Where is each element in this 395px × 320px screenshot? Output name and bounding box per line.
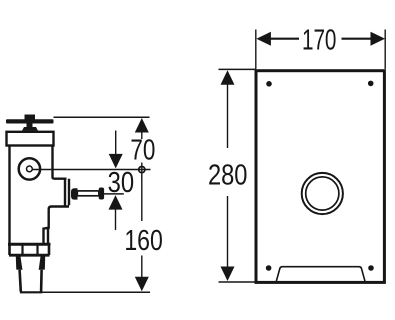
dim 70 upper arrow xyxy=(135,118,149,133)
push rod end cap xyxy=(99,188,104,200)
tailpipe left barb section xyxy=(16,256,23,269)
svg-text:70: 70 xyxy=(130,135,155,167)
rod centerline extension xyxy=(104,193,124,195)
flush valve handle stem xyxy=(27,124,33,128)
dim 280 upper arrow (pointing up) xyxy=(221,70,235,85)
dim 280 bottom extension line xyxy=(219,281,258,283)
svg-text:170: 170 xyxy=(302,24,337,56)
dim 170 left extension line xyxy=(255,30,257,70)
dim 160 line upper segment xyxy=(141,177,143,222)
cover plate outline xyxy=(256,71,384,283)
flush valve handle bar xyxy=(6,119,54,123)
dim 70 line to datum xyxy=(141,163,143,178)
flush valve handle stem flange xyxy=(22,127,38,131)
cover plate screw hole bottom-right xyxy=(368,265,374,271)
push rod shaft xyxy=(77,191,99,196)
extension line from handle top xyxy=(54,116,150,118)
centerline from inlet to datum xyxy=(33,169,151,171)
union nut facet lines xyxy=(23,245,38,254)
dim 170 right arrow xyxy=(371,32,386,46)
union nut top flange xyxy=(8,243,51,246)
push rod flange xyxy=(71,188,78,199)
flush valve supply inlet circle xyxy=(19,158,40,179)
push button inner ring xyxy=(306,177,339,210)
dim 170 right extension line xyxy=(384,30,386,70)
svg-text:160: 160 xyxy=(124,225,163,257)
dim 160 line lower segment with arrow xyxy=(141,256,143,280)
tailpipe left wall xyxy=(20,270,21,292)
tailpipe right barb section xyxy=(39,256,46,269)
svg-text:280: 280 xyxy=(208,160,248,192)
flush valve handle knob xyxy=(25,115,36,122)
cover plate screw hole top-left xyxy=(266,81,272,87)
union nut body xyxy=(10,243,50,255)
cover plate screw hole top-right xyxy=(368,81,374,87)
dim 30 upper arrow (pointing down) xyxy=(109,154,123,169)
union nut bottom edge xyxy=(9,254,50,257)
dim 280 top extension line xyxy=(219,68,257,70)
bottom recess of cover plate xyxy=(276,267,365,282)
bottom extension line at pipe outlet xyxy=(41,291,151,293)
flush valve body outline xyxy=(10,146,67,244)
dim 30 lower arrow (pointing up) xyxy=(109,195,123,210)
flush valve boss plate xyxy=(44,179,70,243)
datum crosshair xyxy=(139,167,145,173)
cover plate screw hole bottom-left xyxy=(266,265,272,271)
dim 280 lower segment with arrow xyxy=(227,196,229,268)
dim 170 left arrow xyxy=(256,32,271,46)
flush valve cap xyxy=(7,132,54,146)
tailpipe right wall xyxy=(40,270,43,292)
flush valve supply inlet center dot xyxy=(27,166,33,172)
tailpipe bottom edge xyxy=(20,291,42,293)
push button outer ring xyxy=(302,173,343,214)
